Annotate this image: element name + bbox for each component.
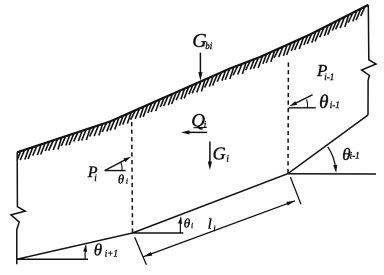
svg-text:i: i <box>191 221 193 230</box>
left wall line with break <box>11 152 25 264</box>
bottom-left horizontal reference line <box>17 258 89 260</box>
svg-text:i: i <box>204 120 207 130</box>
angle arc theta_i-1 at P_i-1 <box>307 100 308 108</box>
right dashed slice boundary <box>287 63 289 174</box>
svg-text:i-1: i-1 <box>330 100 340 110</box>
svg-text:i-1: i-1 <box>350 151 360 161</box>
svg-text:i: i <box>226 154 229 164</box>
theta_i horizontal reference at junction1 <box>133 232 184 234</box>
arrowhead P_i <box>123 157 131 162</box>
arrowhead theta_i <box>178 216 182 224</box>
dimension arrowhead left <box>144 252 153 257</box>
Q_i underline swash <box>194 126 207 128</box>
svg-text:l: l <box>208 216 212 232</box>
force arrow P_i-1 <box>295 95 312 104</box>
svg-text:bi: bi <box>205 41 213 51</box>
dimension extension line left <box>135 237 147 265</box>
slip surface polyline <box>17 115 369 259</box>
svg-text:θ: θ <box>118 172 124 186</box>
arrowhead P_i-1 <box>290 101 298 106</box>
arrowhead theta_i+1 <box>83 244 87 252</box>
left dashed slice boundary <box>131 122 134 233</box>
arrowhead theta_i-1 lower <box>333 165 337 173</box>
angle arc theta_i+1 <box>84 246 87 260</box>
angle arc theta_i-1 lower <box>328 147 336 169</box>
svg-text:θ: θ <box>94 241 102 260</box>
svg-text:θ: θ <box>184 215 191 230</box>
force arrow G_bi <box>199 53 201 74</box>
dimension arrowhead right <box>286 201 295 206</box>
svg-text:i: i <box>126 176 128 185</box>
svg-text:θ: θ <box>319 92 328 113</box>
force arrow P_i <box>105 160 126 171</box>
angle arc theta_i <box>179 218 181 233</box>
P_i-1 horizontal reference <box>289 107 316 109</box>
theta_i-1 horizontal reference at junction2 <box>288 173 376 175</box>
svg-text:i+1: i+1 <box>105 249 118 259</box>
force arrow Q_i <box>188 131 207 133</box>
P_i horizontal reference <box>105 170 126 172</box>
dimension line l_i <box>144 201 296 257</box>
ground surface hatching <box>17 7 365 161</box>
svg-text:i-1: i-1 <box>324 72 334 82</box>
force arrow G_i <box>209 142 211 164</box>
svg-text:G: G <box>213 143 226 163</box>
svg-text:i: i <box>213 224 215 233</box>
angle arc P_i theta_i <box>121 163 122 171</box>
ground surface line <box>17 5 368 152</box>
right wall line with break <box>362 5 376 115</box>
dimension extension line right <box>290 177 301 204</box>
